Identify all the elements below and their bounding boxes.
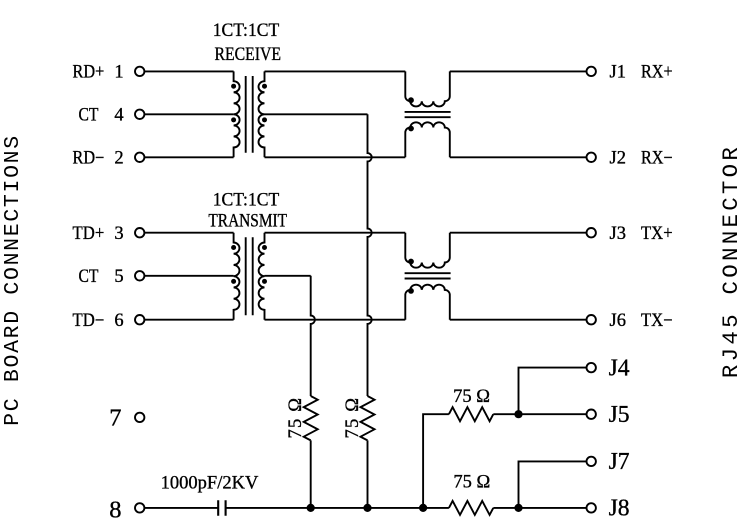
transformer T1 (receive) core <box>246 76 253 153</box>
choke L2 (transmit) core <box>405 273 451 278</box>
resistor R3 75 ohm (horizontal) <box>449 407 493 421</box>
svg-text:J3: J3 <box>610 224 626 244</box>
wire T2 secondary center tap to R1 line <box>265 275 311 277</box>
wire T1 secondary bottom to choke L1 <box>265 156 406 158</box>
choke L1 (receive) core <box>405 112 451 117</box>
choke L2 (transmit) top winding <box>405 233 450 268</box>
transformer T2 (transmit) primary polarity dot (bottom half) <box>231 279 236 284</box>
wire T1 secondary top to choke L1 <box>265 70 406 72</box>
svg-text:RECEIVE: RECEIVE <box>215 45 282 65</box>
svg-text:CT: CT <box>78 106 98 126</box>
svg-text:1CT:1CT: 1CT:1CT <box>213 190 280 210</box>
choke L2 (transmit) bottom winding polarity dot <box>408 288 414 294</box>
wire pin 1 to transformer primary <box>145 70 234 72</box>
svg-text:J6: J6 <box>610 311 626 331</box>
svg-text:RX+: RX+ <box>641 63 673 83</box>
capacitor C1 1000pF/2KV plates <box>218 500 225 516</box>
pin 4 terminal circle <box>135 110 144 119</box>
pin 1 terminal circle <box>135 67 144 76</box>
wire T2 secondary top to choke L2 <box>265 232 406 234</box>
junction dot R3/J4 branch <box>514 410 522 418</box>
wire R1 line from T2 center tap down (hops over TD- wire) <box>311 276 315 396</box>
transformer T2 (transmit) secondary winding <box>259 233 265 320</box>
pin 8 terminal circle <box>135 503 144 512</box>
svg-text:CT: CT <box>78 267 98 287</box>
transformer T2 (transmit) secondary polarity dot (bottom half) <box>262 279 267 284</box>
svg-text:6: 6 <box>114 311 123 331</box>
resistor R4 75 ohm (horizontal, on rail) <box>449 501 493 515</box>
wire branch from rail up to R3 <box>423 414 449 508</box>
svg-text:75 Ω: 75 Ω <box>453 473 490 493</box>
pin J6 terminal circle <box>587 315 596 324</box>
pin J8 terminal circle <box>587 503 596 512</box>
pin J1 terminal circle <box>587 67 596 76</box>
pin 2 terminal circle <box>135 153 144 162</box>
junction dot rail/R1 <box>307 504 315 512</box>
pin 3 terminal circle <box>135 228 144 237</box>
junction dot rail/R2 <box>363 504 371 512</box>
transformer T2 (transmit) primary winding <box>234 233 240 320</box>
wire R3 to J5 <box>493 413 586 415</box>
svg-text:TD+: TD+ <box>73 224 105 244</box>
choke L1 (receive) top winding polarity dot <box>408 97 414 103</box>
transformer T1 (receive) primary polarity dot (bottom half) <box>231 117 236 122</box>
svg-text:1000pF/2KV: 1000pF/2KV <box>161 473 259 493</box>
wire branch junction to J4 <box>519 368 587 415</box>
choke L1 (receive) bottom winding polarity dot <box>408 126 414 132</box>
wire pin 2 to transformer primary <box>145 156 234 158</box>
svg-text:1: 1 <box>114 63 123 83</box>
svg-text:TD−: TD− <box>73 311 105 331</box>
svg-text:3: 3 <box>114 224 123 244</box>
svg-text:7: 7 <box>109 405 121 432</box>
pin J5 terminal circle <box>587 410 596 419</box>
wire R2 bottom to ground rail <box>367 440 369 508</box>
transformer T1 (receive) secondary winding <box>259 71 265 157</box>
svg-text:J8: J8 <box>609 495 630 522</box>
svg-text:1CT:1CT: 1CT:1CT <box>213 21 280 41</box>
choke L1 (receive) top winding <box>405 71 450 106</box>
svg-text:TX−: TX− <box>641 311 673 331</box>
svg-text:75 Ω: 75 Ω <box>453 387 490 407</box>
pin J4 terminal circle <box>587 363 596 372</box>
transformer T2 (transmit) secondary polarity dot (top half) <box>262 245 267 250</box>
transformer T1 (receive) primary polarity dot (top half) <box>231 84 236 89</box>
wire choke L2 to J6 <box>450 319 587 321</box>
svg-text:PC BOARD CONNECTIONS: PC BOARD CONNECTIONS <box>1 134 25 426</box>
svg-text:RD−: RD− <box>73 149 105 169</box>
wire pin 3 to transformer primary <box>145 232 234 234</box>
wire choke L1 to J2 <box>450 156 587 158</box>
wire choke L2 to J3 <box>450 232 587 234</box>
pin J3 terminal circle <box>587 228 596 237</box>
wire branch junction to J7 <box>519 461 587 508</box>
resistor R2 75 ohm (vertical) <box>361 396 375 440</box>
pin J7 terminal circle <box>587 457 596 466</box>
svg-text:J1: J1 <box>610 63 626 83</box>
svg-text:75 Ω: 75 Ω <box>286 397 306 439</box>
wire pin 4 to transformer primary <box>145 113 234 115</box>
svg-text:J5: J5 <box>609 401 630 428</box>
pin 6 terminal circle <box>135 315 144 324</box>
svg-text:J4: J4 <box>609 354 630 381</box>
choke L2 (transmit) top winding polarity dot <box>408 259 414 265</box>
wire T1 secondary center tap to R2 line <box>265 113 368 115</box>
pin 7 terminal circle <box>135 413 144 422</box>
transformer T2 (transmit) core <box>246 237 253 315</box>
wire pin 8 to capacitor C1 <box>145 507 219 509</box>
wire choke L1 to J1 <box>450 70 587 72</box>
choke L2 (transmit) bottom winding <box>405 285 450 320</box>
wire T2 secondary bottom to choke L2 <box>265 319 406 321</box>
transformer T2 (transmit) primary polarity dot (top half) <box>231 245 236 250</box>
junction dot rail/R3 branch <box>419 504 427 512</box>
resistor R1 75 ohm (vertical) <box>304 396 318 440</box>
svg-text:2: 2 <box>114 149 123 169</box>
wire pin 6 to transformer primary <box>145 319 234 321</box>
svg-text:TRANSMIT: TRANSMIT <box>208 211 287 231</box>
svg-text:75 Ω: 75 Ω <box>343 397 363 439</box>
junction dot rail/J7 branch <box>514 504 522 512</box>
transformer T1 (receive) secondary polarity dot (top half) <box>262 84 267 89</box>
pin 5 terminal circle <box>135 271 144 280</box>
svg-text:5: 5 <box>114 267 123 287</box>
transformer T1 (receive) primary winding <box>234 71 240 157</box>
wire R1 bottom to ground rail <box>310 440 312 508</box>
svg-text:TX+: TX+ <box>641 224 673 244</box>
wire capacitor to R4 (ground rail) <box>226 507 449 509</box>
svg-text:RX−: RX− <box>641 149 673 169</box>
svg-text:8: 8 <box>109 496 121 523</box>
pin J2 terminal circle <box>587 153 596 162</box>
svg-text:RJ45 CONNECTOR: RJ45 CONNECTOR <box>718 144 743 378</box>
transformer T1 (receive) secondary polarity dot (bottom half) <box>262 117 267 122</box>
choke L1 (receive) bottom winding <box>405 122 450 157</box>
svg-text:J7: J7 <box>609 448 630 475</box>
wire R4 to J8 <box>493 507 586 509</box>
svg-text:RD+: RD+ <box>73 63 105 83</box>
svg-text:4: 4 <box>114 106 123 126</box>
wire R2 line from T1 center tap down (hops over 3 wires) <box>368 114 372 396</box>
wire pin 5 to transformer primary <box>145 275 234 277</box>
svg-text:J2: J2 <box>610 149 626 169</box>
